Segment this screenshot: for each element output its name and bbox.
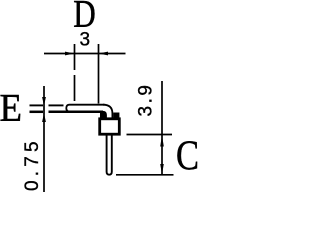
svg-text:3.9: 3.9 [136,83,157,117]
svg-text:0.75: 0.75 [22,137,43,191]
svg-text:C: C [176,134,199,180]
svg-text:E: E [0,87,22,130]
svg-text:3: 3 [80,30,91,51]
